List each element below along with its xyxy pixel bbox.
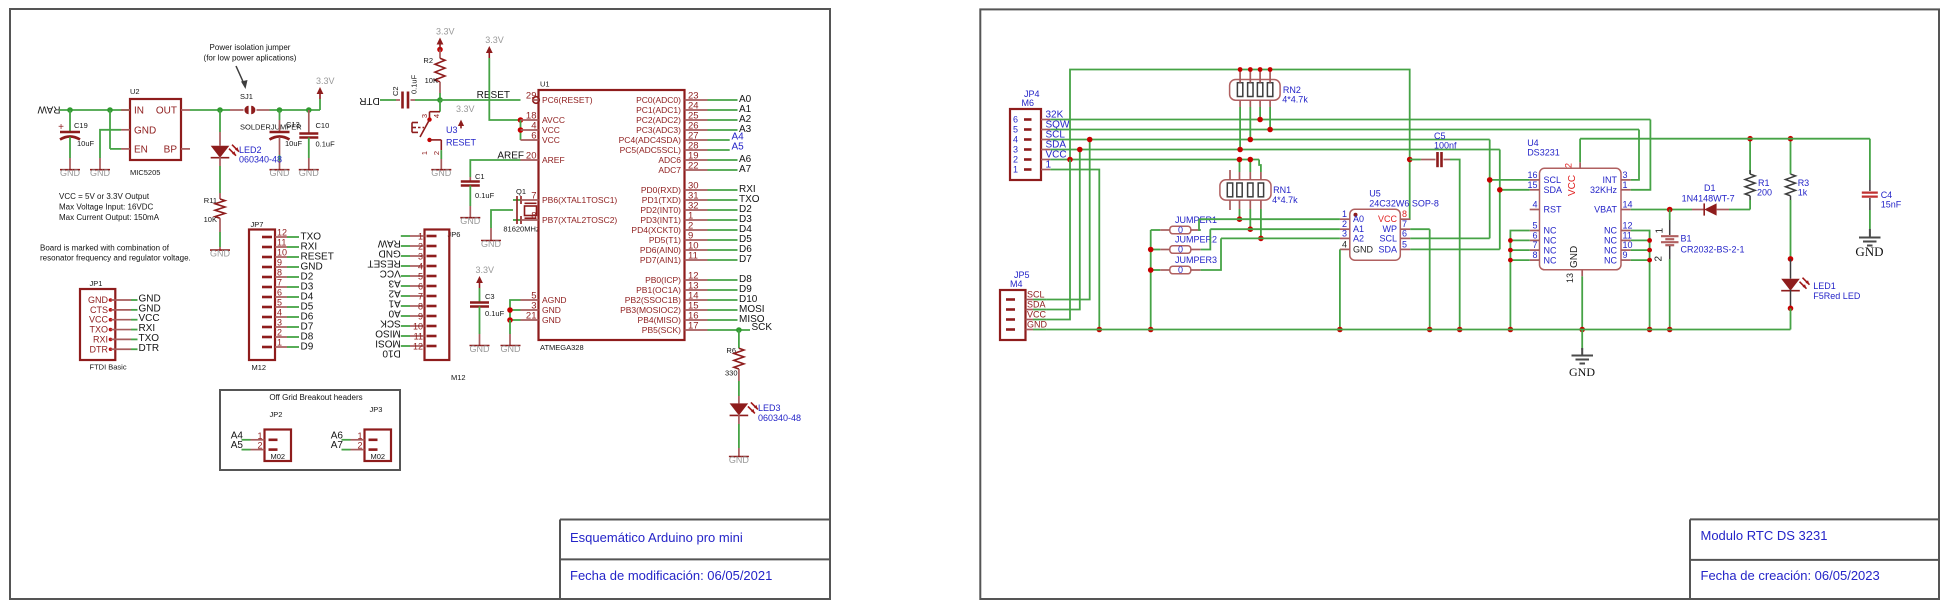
svg-text:PD3(INT1): PD3(INT1)	[640, 215, 681, 225]
svg-text:M6: M6	[1022, 98, 1035, 108]
svg-text:C13: C13	[286, 120, 300, 129]
capacitor C13 (10uF polarized)	[279, 110, 281, 120]
svg-text:JP2: JP2	[270, 410, 283, 419]
3.3V supply arrow	[319, 91, 321, 99]
svg-text:3.3V: 3.3V	[456, 104, 475, 114]
svg-text:1: 1	[1013, 165, 1018, 175]
U1 pin 23 PC0(ADC0)	[685, 99, 708, 101]
3.3V supply for AVCC	[488, 50, 490, 58]
junction U5 GND rail	[1337, 327, 1343, 333]
svg-text:PC6(RESET): PC6(RESET)	[542, 95, 593, 105]
svg-text:1: 1	[418, 231, 423, 241]
svg-text:0: 0	[1178, 225, 1183, 235]
U1 pin 4 VCC	[521, 129, 539, 131]
svg-text:GND: GND	[299, 168, 320, 178]
svg-text:CR2032-BS-2-1: CR2032-BS-2-1	[1681, 245, 1745, 255]
svg-text:Q1: Q1	[516, 187, 526, 196]
svg-text:GND: GND	[470, 344, 491, 354]
svg-text:PB2(SSOC1B): PB2(SSOC1B)	[625, 295, 681, 305]
JP7 pin 11	[262, 246, 272, 249]
junction VCC pin4	[518, 127, 524, 133]
svg-text:2: 2	[277, 328, 282, 338]
U1 pin 25 PC2(ADC2)	[685, 119, 708, 121]
svg-text:MIC5205: MIC5205	[130, 168, 160, 177]
svg-text:Modulo RTC DS 3231: Modulo RTC DS 3231	[1701, 528, 1828, 543]
svg-text:NC: NC	[1544, 236, 1557, 246]
P6 pin 7	[427, 295, 437, 298]
svg-text:DS3231: DS3231	[1527, 148, 1560, 158]
svg-text:9: 9	[418, 311, 423, 321]
svg-text:1k: 1k	[1798, 188, 1808, 198]
svg-text:0: 0	[1178, 265, 1183, 275]
U1 pin 18 AVCC	[521, 119, 539, 121]
svg-text:200: 200	[1757, 188, 1772, 198]
U1 pin 14 PB2(SSOC1B)	[685, 299, 708, 301]
wire INT to SQW bus	[1631, 130, 1639, 180]
JP2 pin 2	[269, 448, 278, 451]
junction NC-right GND rail	[1647, 327, 1653, 333]
U4 pin 10 NC	[1621, 249, 1631, 251]
svg-text:PB1(OC1A): PB1(OC1A)	[636, 285, 681, 295]
svg-text:5: 5	[1532, 221, 1537, 231]
svg-text:C5: C5	[1434, 131, 1446, 141]
svg-text:RN1: RN1	[1273, 185, 1291, 195]
svg-text:5: 5	[277, 298, 282, 308]
svg-text:PC5(ADC5SCL): PC5(ADC5SCL)	[620, 145, 682, 155]
U1 pin 2 PD4(XCKT0)	[685, 229, 708, 231]
svg-text:OUT: OUT	[156, 106, 177, 117]
svg-text:6: 6	[418, 281, 423, 291]
svg-text:1: 1	[1342, 209, 1347, 219]
svg-text:CTS: CTS	[90, 305, 108, 315]
U1 pin 31 PD1(TXD)	[685, 199, 708, 201]
P6 pin 10	[427, 325, 437, 328]
svg-text:PD1(TXD): PD1(TXD)	[642, 195, 681, 205]
svg-text:A1: A1	[388, 298, 401, 309]
svg-text:M02: M02	[271, 452, 286, 461]
svg-text:RN2: RN2	[1283, 85, 1301, 95]
svg-text:A7: A7	[739, 164, 752, 175]
junction RN2 to SQW	[1267, 127, 1273, 133]
svg-text:4: 4	[1532, 200, 1537, 210]
svg-text:GND: GND	[60, 168, 81, 178]
svg-text:Max Voltage Input: 16VDC: Max Voltage Input: 16VDC	[59, 203, 154, 212]
svg-text:10: 10	[1623, 240, 1633, 250]
JP3 pin 1	[369, 438, 378, 441]
svg-text:8: 8	[1402, 209, 1407, 219]
P6 pin 5	[427, 275, 437, 278]
svg-text:R3: R3	[1798, 178, 1810, 188]
svg-text:6: 6	[1532, 230, 1537, 240]
junction C13	[277, 107, 283, 113]
svg-text:RAW: RAW	[377, 238, 401, 249]
svg-text:C3: C3	[485, 292, 495, 301]
wire U5 SDA	[1410, 248, 1500, 250]
svg-text:2: 2	[1564, 163, 1574, 168]
off-grid breakout frame	[220, 390, 400, 470]
svg-text:Power isolation jumper: Power isolation jumper	[210, 43, 291, 52]
ground symbol (hatched) below U4	[1572, 348, 1594, 364]
svg-text:3.3V: 3.3V	[485, 35, 504, 45]
U1 pin 26 PC3(ADC3)	[685, 129, 708, 131]
svg-text:C4: C4	[1881, 190, 1893, 200]
svg-text:GND: GND	[1569, 246, 1580, 268]
svg-text:PD6(AIN0): PD6(AIN0)	[640, 245, 681, 255]
wire RAW to U2.IN	[59, 109, 130, 111]
svg-text:29: 29	[526, 91, 537, 102]
junction R1 top	[1747, 136, 1753, 142]
junction NC-left GND rail	[1508, 327, 1514, 333]
svg-text:NC: NC	[1544, 255, 1557, 265]
U5 pin 5 SDA	[1400, 248, 1410, 250]
svg-text:BP: BP	[164, 144, 178, 155]
P6 pin 6	[427, 285, 437, 288]
svg-text:SCK: SCK	[380, 318, 401, 329]
JP5 pin SCL	[1006, 298, 1015, 301]
svg-text:1: 1	[277, 338, 282, 348]
resistor R1 200	[1749, 139, 1751, 174]
svg-text:15: 15	[1527, 180, 1537, 190]
junction AVCC pin18	[518, 117, 524, 123]
svg-text:Esquemático Arduino pro mini: Esquemático Arduino pro mini	[570, 530, 743, 545]
ground below C19	[60, 169, 80, 171]
svg-text:A2: A2	[388, 288, 401, 299]
svg-text:A5: A5	[231, 440, 244, 451]
svg-text:32KHz: 32KHz	[1590, 185, 1618, 195]
LED D3 LED3	[730, 403, 749, 415]
svg-text:12: 12	[1623, 221, 1633, 231]
wire net-1 from JP4 pin1	[1050, 170, 1099, 330]
svg-text:C10: C10	[316, 121, 330, 130]
resistor R6 330	[738, 330, 740, 348]
junction RN2 to SDA	[1237, 147, 1243, 153]
ground below U3	[431, 169, 451, 171]
svg-text:6: 6	[531, 131, 536, 142]
svg-text:TXO: TXO	[89, 325, 108, 335]
svg-text:0: 0	[1178, 244, 1183, 254]
JP3 pin 2	[369, 448, 378, 451]
svg-text:11: 11	[277, 238, 286, 248]
svg-text:6: 6	[1402, 228, 1407, 238]
wire SJ1 to 3.3V	[270, 109, 321, 111]
U4 GND pin 13 bottom	[1581, 270, 1583, 277]
svg-text:VCC: VCC	[380, 268, 401, 279]
svg-text:4: 4	[1342, 239, 1347, 249]
svg-text:3: 3	[277, 318, 282, 328]
wire AGND group	[510, 300, 521, 320]
wire RESET to U1 pin29	[440, 99, 521, 101]
svg-text:3.3V: 3.3V	[476, 265, 495, 275]
U5 wires	[1199, 218, 1340, 220]
svg-text:SCK: SCK	[752, 322, 773, 333]
U1 pin 27 PC4(ADC4SDA)	[685, 139, 708, 141]
U1 pin 3 GND	[521, 309, 539, 311]
ground below LED3	[729, 456, 749, 458]
svg-text:81620MHz: 81620MHz	[503, 225, 540, 234]
U1 reset bubble	[533, 97, 540, 104]
U5 pin 6 SCL	[1400, 237, 1410, 239]
svg-text:SJ1: SJ1	[240, 92, 253, 101]
svg-text:PC4(ADC4SDA): PC4(ADC4SDA)	[619, 135, 682, 145]
svg-text:JUMPER3: JUMPER3	[1175, 255, 1217, 265]
junction LED1 top	[1788, 256, 1794, 262]
junction RN2 to 32K	[1257, 117, 1263, 123]
svg-text:GND: GND	[134, 125, 156, 136]
svg-text:U2: U2	[130, 87, 140, 96]
svg-text:1: 1	[357, 431, 362, 441]
U1 pin 16 PB4(MISO)	[685, 319, 708, 321]
GND rail wire	[1047, 329, 1791, 331]
junction RN1 to A2 net	[1258, 236, 1264, 242]
button actuator	[411, 123, 413, 133]
junction RAW/C19	[67, 107, 73, 113]
svg-text:0.1uF: 0.1uF	[410, 74, 419, 94]
wire U5 WP to GND rail	[1429, 229, 1431, 329]
junction RN2 to SCL	[1248, 137, 1254, 143]
svg-text:GND: GND	[431, 168, 452, 178]
svg-text:NC: NC	[1604, 255, 1617, 265]
junction SCL at U4	[1487, 177, 1493, 183]
U1 pin 29 PC6(RESET)	[532, 99, 538, 101]
svg-text:5: 5	[1402, 239, 1407, 249]
resistor network RN2 4*4.7k	[1230, 80, 1281, 101]
ground below AGND	[501, 345, 521, 347]
svg-text:4: 4	[277, 308, 282, 318]
svg-text:11: 11	[688, 251, 698, 262]
svg-text:10uF: 10uF	[285, 139, 303, 148]
3.3V supply above R2	[439, 42, 441, 50]
svg-text:PB0(ICP): PB0(ICP)	[645, 275, 681, 285]
svg-text:U3: U3	[446, 125, 458, 135]
ground below C10	[299, 169, 319, 171]
svg-text:FTDI Basic: FTDI Basic	[90, 363, 127, 372]
JP7 pin 2	[262, 336, 272, 339]
svg-text:SCL: SCL	[1544, 175, 1562, 185]
svg-text:EN: EN	[134, 144, 148, 155]
junction SDA at U4	[1497, 187, 1503, 193]
wire AREF to C1	[470, 160, 520, 177]
svg-text:1: 1	[1655, 228, 1666, 234]
JP7 pin 1	[262, 346, 272, 349]
svg-text:D10: D10	[382, 348, 401, 359]
junction C10	[306, 107, 312, 113]
wire U4 GND to ground symbol	[1581, 330, 1583, 351]
junction RN1 to VCC	[1237, 157, 1243, 163]
U4 pin 14 VBAT	[1621, 209, 1631, 211]
svg-text:SCL: SCL	[1027, 290, 1045, 300]
svg-text:7: 7	[277, 278, 282, 288]
svg-text:VCC: VCC	[1567, 175, 1578, 196]
svg-text:R2: R2	[423, 56, 433, 65]
svg-text:GND: GND	[1027, 320, 1048, 330]
svg-text:JP3: JP3	[370, 405, 383, 414]
svg-text:20: 20	[526, 151, 537, 162]
svg-text:3: 3	[1623, 170, 1628, 180]
junction GND pin21	[507, 317, 513, 323]
svg-text:AVCC: AVCC	[542, 115, 565, 125]
svg-text:LED3: LED3	[758, 403, 781, 413]
P6 pin 3	[427, 255, 437, 258]
svg-text:IN: IN	[134, 106, 144, 117]
svg-text:PD7(AIN1): PD7(AIN1)	[640, 255, 681, 265]
resistor network RN1 4*4.7k	[1220, 180, 1271, 200]
wire SCL bus	[1050, 139, 1489, 141]
junction SCK/R6	[736, 327, 742, 333]
3.3V supply above C3	[479, 280, 481, 288]
svg-text:330: 330	[725, 369, 738, 378]
wire U2.OUT to SJ1	[190, 109, 230, 111]
capacitor C3 0.1uF	[470, 301, 489, 304]
svg-text:A0: A0	[388, 308, 401, 319]
svg-text:11: 11	[414, 331, 423, 341]
svg-text:10: 10	[413, 321, 423, 331]
U1 pin 9 PD5(T1)	[685, 239, 708, 241]
junction LED1 bottom	[1788, 306, 1794, 312]
svg-text:9: 9	[1623, 250, 1628, 260]
svg-text:SCL: SCL	[1379, 233, 1397, 243]
svg-text:VCC: VCC	[89, 315, 109, 325]
ground symbol below C4	[1859, 229, 1881, 246]
svg-text:7: 7	[531, 191, 536, 202]
svg-text:10K: 10K	[425, 76, 438, 85]
junction R2 top	[437, 47, 443, 53]
junction U4 GND rail	[1579, 327, 1585, 333]
JP7 pin 7	[262, 286, 272, 289]
svg-text:4: 4	[418, 261, 423, 271]
wire VBAT	[1631, 209, 1692, 211]
svg-text:LED1: LED1	[1813, 281, 1836, 291]
svg-text:17: 17	[688, 321, 699, 332]
svg-text:PD0(RXD): PD0(RXD)	[641, 185, 681, 195]
svg-text:GND: GND	[1353, 244, 1374, 254]
svg-text:PB5(SCK): PB5(SCK)	[642, 325, 681, 335]
P6 pin 1	[427, 235, 437, 238]
junction R3 top	[1788, 136, 1794, 142]
junction LED2	[217, 107, 223, 113]
U1 pin 20 AREF	[521, 159, 539, 161]
capacitor C2 0.1uF	[396, 99, 400, 101]
svg-text:RESET: RESET	[477, 90, 510, 101]
svg-text:D1: D1	[1704, 183, 1716, 193]
svg-text:0.1uF: 0.1uF	[475, 191, 495, 200]
U1 pin 13 PB1(OC1A)	[685, 289, 708, 291]
svg-text:PC2(ADC2): PC2(ADC2)	[636, 115, 681, 125]
junction JUMPER2	[1148, 247, 1154, 253]
ground below C1	[460, 217, 480, 219]
U4 pin 16 SCL	[1530, 179, 1540, 181]
U4 VCC pin 2 top	[1579, 162, 1581, 168]
svg-text:12: 12	[277, 228, 287, 238]
junction WP GND rail	[1427, 327, 1433, 333]
U1 pin 15 PB3(MOSIOC2)	[685, 309, 708, 311]
junction GND pin3	[507, 307, 513, 313]
U4 pin 3 INT	[1621, 179, 1631, 181]
JP7 pin 9	[262, 266, 272, 269]
svg-text:Fecha de creación: 06/05/2023: Fecha de creación: 06/05/2023	[1701, 568, 1880, 583]
LED D2 symbol	[211, 146, 230, 158]
U1 pin 5 AGND	[521, 299, 539, 301]
svg-text:PB4(MISO): PB4(MISO)	[638, 315, 682, 325]
svg-text:VCC: VCC	[1378, 214, 1398, 224]
svg-text:8: 8	[531, 211, 536, 222]
svg-text:3: 3	[418, 251, 423, 261]
svg-text:GND: GND	[501, 344, 522, 354]
svg-text:PC1(ADC1): PC1(ADC1)	[636, 105, 681, 115]
svg-text:U4: U4	[1527, 138, 1539, 148]
small 3.3V arrow near U3	[460, 124, 462, 128]
svg-text:RXI: RXI	[93, 334, 108, 344]
svg-text:ADC6: ADC6	[658, 155, 681, 165]
wire DTR to C2	[380, 99, 396, 101]
svg-text:A0: A0	[1353, 214, 1364, 224]
svg-text:PD4(XCKT0): PD4(XCKT0)	[631, 225, 681, 235]
junction RN1 to A1 net	[1248, 226, 1254, 232]
junction RN1 to A0 net	[1237, 216, 1243, 222]
U1 pin 24 PC1(ADC1)	[685, 109, 708, 111]
svg-text:060340-48: 060340-48	[239, 155, 282, 165]
svg-text:NC: NC	[1604, 236, 1617, 246]
svg-text:PB6(XTAL1TOSC1): PB6(XTAL1TOSC1)	[542, 195, 617, 205]
svg-text:RESET: RESET	[446, 138, 477, 148]
svg-text:AREF: AREF	[542, 155, 565, 165]
P6 pin 8	[427, 305, 437, 308]
junction VCC riser	[1067, 157, 1073, 163]
svg-text:M12: M12	[451, 373, 466, 382]
wire SDA bus	[1050, 149, 1500, 151]
junction battery GND rail	[1667, 327, 1673, 333]
svg-text:16: 16	[1527, 170, 1537, 180]
LED2 060340-48	[219, 110, 221, 132]
junction battery VBAT	[1667, 207, 1673, 213]
junction VCC riser C5	[1407, 157, 1413, 163]
U4 right NC bus	[1631, 231, 1650, 330]
U5 pin 8 VCC	[1400, 218, 1410, 220]
wire SDA bus riser	[1499, 150, 1501, 250]
svg-text:MISO: MISO	[375, 328, 401, 339]
U1 pin 17 PB5(SCK)	[685, 329, 708, 331]
svg-text:GND: GND	[379, 248, 401, 259]
svg-text:resonator frequency and regula: resonator frequency and regulator voltag…	[40, 254, 191, 263]
wire SDA down to JP5	[1047, 150, 1080, 310]
U1 pin 22 ADC7	[685, 169, 708, 171]
wire SCL down to JP5	[1047, 140, 1090, 300]
wire Q1 gnd	[491, 210, 513, 228]
svg-text:M02: M02	[371, 452, 386, 461]
svg-text:21: 21	[526, 311, 537, 322]
svg-text:PD2(INT0): PD2(INT0)	[640, 205, 681, 215]
svg-text:LED2: LED2	[239, 145, 262, 155]
JP2 pin 1	[269, 438, 278, 441]
svg-text:3: 3	[1013, 145, 1018, 155]
svg-text:4*4.7k: 4*4.7k	[1282, 95, 1308, 105]
wire RAW to U2.EN	[109, 110, 111, 149]
wire VCC down to JP5	[1047, 160, 1070, 320]
wire U2.GND down	[100, 130, 121, 158]
RN1 top pins	[1229, 170, 1231, 180]
junction RAW/EN	[107, 107, 113, 113]
svg-text:2: 2	[1013, 155, 1018, 165]
wire U4 SDA junction	[1500, 189, 1530, 191]
U1 pin 10 PD6(AIN0)	[685, 249, 708, 251]
svg-text:RST: RST	[1544, 205, 1563, 215]
svg-text:13: 13	[1565, 273, 1575, 283]
svg-text:4*4.7k: 4*4.7k	[1272, 195, 1298, 205]
svg-text:3.3V: 3.3V	[436, 27, 455, 37]
junction RESET	[437, 97, 443, 103]
left schematic sheet frame	[10, 9, 830, 599]
svg-text:3.3V: 3.3V	[316, 76, 335, 86]
svg-text:1: 1	[1623, 180, 1628, 190]
